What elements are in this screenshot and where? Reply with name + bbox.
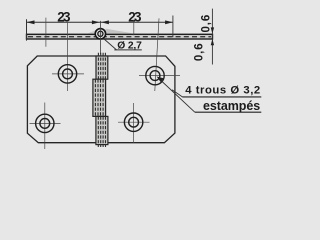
- hole BL axis top segment: [45, 18, 47, 47]
- 0,6 thickness dimension: [211, 9, 213, 65]
- hole TR axis horizontal: [139, 75, 180, 77]
- extension line right: [172, 16, 174, 38]
- svg-text:23: 23: [128, 10, 142, 25]
- knuckle band segment 2: [93, 79, 106, 116]
- leader branch to first note line: [172, 90, 182, 97]
- note line 1: 4 trous Ø 3,2: [182, 96, 261, 98]
- hole BR axis top segment: [133, 20, 135, 35]
- hole BL: [36, 114, 54, 132]
- arrow pair at centre: [92, 20, 100, 24]
- hole BL axis bottom segment: [44, 103, 46, 150]
- pin hidden dashed lines seg2: [94, 79, 96, 116]
- hole BR: [124, 113, 142, 131]
- pin hidden dashed lines seg3: [97, 117, 99, 147]
- shade wedge left of knuckle: [87, 30, 96, 33]
- plate outline with chamfered corners: [27, 56, 175, 143]
- hole TR axis vertical: [155, 18, 159, 91]
- hole TL: [58, 65, 76, 83]
- hole TL axis vertical: [66, 23, 68, 91]
- hole TR: [146, 66, 164, 84]
- shade wedge right of knuckle: [105, 29, 134, 34]
- hinge pin circle: [98, 31, 103, 36]
- hole BL axis horizontal: [30, 122, 61, 124]
- arrow left (tip at 26.5): [27, 20, 35, 24]
- hinge leaf strip (edge view): [27, 34, 213, 39]
- svg-text:0,6: 0,6: [200, 14, 212, 33]
- dimension line 23+23: [27, 21, 173, 23]
- arrow right (tip at 172.9): [165, 20, 173, 24]
- strip mid dashed texture: [28, 36, 211, 38]
- svg-text:4 trous Ø 3,2: 4 trous Ø 3,2: [185, 84, 260, 96]
- knuckle outer circle: [95, 29, 105, 39]
- knuckle band segment 1: [96, 56, 108, 79]
- hole BR axis bottom segment: [133, 103, 135, 143]
- extension line left: [26, 19, 28, 40]
- svg-text:23: 23: [57, 10, 71, 25]
- hole BR axis horizontal: [118, 121, 150, 123]
- svg-text:0,6: 0,6: [194, 42, 206, 61]
- svg-text:Ø 2,7: Ø 2,7: [117, 41, 142, 52]
- leader to hole TR with arrow: [158, 78, 195, 112]
- knuckle band segment 3: [96, 116, 108, 144]
- leader Ø 2,7: [104, 39, 117, 50]
- svg-text:estampés: estampés: [203, 99, 260, 113]
- pin hidden dashed lines seg1: [97, 53, 99, 79]
- hole TL axis horizontal: [52, 73, 84, 75]
- note line 2: estampés: [195, 111, 261, 113]
- hinge axis centerline: [99, 21, 101, 54]
